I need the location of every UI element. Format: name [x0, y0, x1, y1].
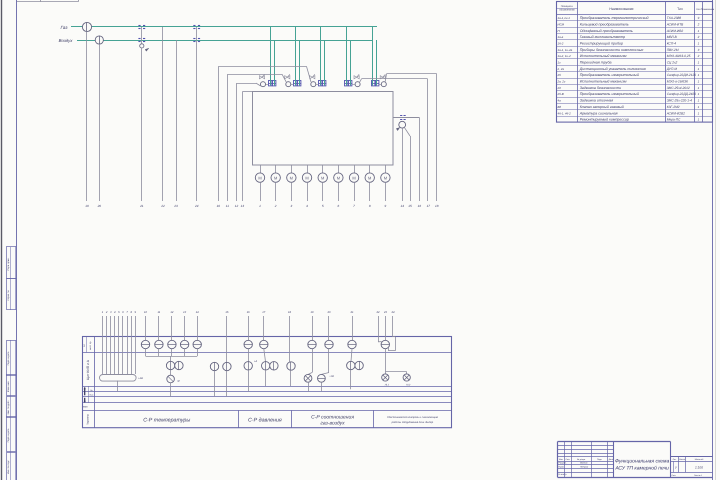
svg-text:Тип: Тип [677, 7, 683, 11]
svg-text:ТХА-2388: ТХА-2388 [667, 16, 682, 20]
svg-text:1а-2, 1и-2: 1а-2, 1и-2 [558, 54, 572, 58]
svg-text:Инв. № подл: Инв. № подл [7, 460, 10, 474]
svg-text:Ремонтируемый компрессор: Ремонтируемый компрессор [580, 118, 629, 122]
svg-text:16: 16 [247, 311, 250, 314]
svg-text:14: 14 [196, 311, 199, 314]
svg-text:мест. пр.: мест. пр. [89, 341, 92, 350]
svg-text:7: 7 [353, 204, 355, 208]
svg-text:18: 18 [435, 204, 439, 208]
svg-text:С-Р давления: С-Р давления [248, 418, 282, 424]
svg-text:КСП-4: КСП-4 [667, 42, 677, 46]
svg-text:18: 18 [288, 311, 291, 314]
svg-text:1а-1,1и-1: 1а-1,1и-1 [558, 16, 571, 20]
svg-text:Клапан запорный газовый: Клапан запорный газовый [580, 105, 624, 109]
svg-text:19: 19 [85, 204, 89, 208]
svg-text:+1В: +1В [329, 375, 334, 378]
svg-text:Подп.: Подп. [597, 458, 603, 461]
svg-text:АСИМ-ИВ2: АСИМ-ИВ2 [666, 29, 684, 33]
svg-text:1а-1, 1и-2а: 1а-1, 1и-2а [558, 48, 573, 52]
svg-text:9: 9 [385, 204, 387, 208]
svg-text:Изм: Изм [559, 458, 563, 461]
svg-text:Преобразователь измерительный: Преобразователь измерительный [580, 92, 639, 96]
svg-text:Однофазный преобразователь: Однофазный преобразователь [580, 29, 633, 33]
svg-text:Преобразователь измерительный: Преобразователь измерительный [580, 73, 639, 77]
svg-text:16: 16 [418, 204, 422, 208]
svg-text:МЭО-а-16/63К: МЭО-а-16/63К [667, 80, 689, 84]
svg-text:17: 17 [262, 311, 265, 314]
svg-text:Регистрирующий прибор: Регистрирующий прибор [580, 42, 623, 46]
svg-text:13: 13 [241, 204, 245, 208]
svg-text:22: 22 [160, 204, 165, 208]
svg-text:19: 19 [311, 311, 314, 314]
svg-text:Взам. инв.: Взам. инв. [7, 381, 10, 392]
svg-text:М: М [305, 175, 308, 180]
svg-text:17: 17 [427, 204, 431, 208]
svg-text:Масштаб: Масштаб [695, 458, 704, 461]
svg-text:8: 8 [369, 204, 371, 208]
svg-text:1а-а: 1а-а [558, 35, 564, 39]
svg-text:Лит.: Лит. [673, 458, 677, 461]
svg-text:Мера-ПС: Мера-ПС [667, 118, 681, 122]
svg-text:2: 2 [697, 54, 700, 58]
svg-text:Функциональная схема: Функциональная схема [615, 459, 670, 465]
svg-text:АСУ ТП камерной печи: АСУ ТП камерной печи [614, 466, 669, 472]
svg-text:Масса: Масса [679, 458, 686, 461]
svg-text:1б-2: 1б-2 [558, 42, 564, 46]
svg-text:2д: 2д [557, 86, 562, 90]
svg-text:1: 1 [259, 204, 261, 208]
svg-text:Обеспечивается контроль и сигн: Обеспечивается контроль и сигнализация [387, 416, 439, 419]
svg-text:МЭО-40/63-0,25: МЭО-40/63-0,25 [667, 54, 691, 58]
svg-text:2б: 2б [557, 73, 562, 77]
svg-text:Вд: Вд [558, 105, 562, 109]
svg-text:23: 23 [383, 311, 387, 314]
svg-text:М: М [337, 175, 340, 180]
svg-text:HL1: HL1 [385, 383, 390, 386]
svg-text:13: 13 [183, 311, 186, 314]
svg-text:Параметр: Параметр [87, 413, 90, 425]
svg-text:HL2: HL2 [406, 383, 411, 386]
svg-text:Перв. прим.: Перв. прим. [7, 257, 10, 270]
svg-text:МВЛ-В: МВЛ-В [667, 35, 678, 39]
svg-text:Справ. №: Справ. № [7, 290, 10, 301]
svg-text:Задвижка безопасности: Задвижка безопасности [580, 86, 621, 90]
svg-text:КЗГ-2М2: КЗГ-2М2 [667, 105, 680, 109]
svg-text:М: М [321, 175, 324, 180]
svg-text:2, 2а: 2, 2а [557, 67, 565, 71]
svg-text:3: 3 [290, 204, 292, 208]
svg-text:Пров.: Пров. [559, 465, 565, 468]
svg-text:Дистанционный указатель положе: Дистанционный указатель положения [579, 67, 646, 71]
svg-text:Кольцевой преобразователь: Кольцевой преобразователь [580, 22, 629, 26]
svg-text:С-Р температуры: С-Р температуры [143, 418, 190, 424]
svg-text:10: 10 [217, 204, 221, 208]
svg-text:24: 24 [194, 204, 199, 208]
svg-text:4: 4 [306, 204, 308, 208]
svg-text:Арматура сигнальная: Арматура сигнальная [579, 111, 618, 115]
svg-text:Н.контр.: Н.контр. [559, 473, 568, 476]
svg-text:2б-В: 2б-В [557, 92, 564, 96]
svg-text:10: 10 [144, 311, 147, 314]
svg-text:Газ: Газ [61, 25, 69, 30]
svg-text:2: 2 [274, 204, 277, 208]
svg-text:ЗМС-25х4-2012: ЗМС-25х4-2012 [667, 86, 690, 90]
svg-text:12: 12 [235, 204, 239, 208]
svg-text:М: М [274, 175, 277, 180]
svg-text:АСИМ-И2В2: АСИМ-И2В2 [666, 111, 685, 115]
svg-text:2: 2 [697, 22, 700, 26]
svg-text:М: М [384, 175, 387, 180]
svg-text:ДУП-М: ДУП-М [666, 67, 678, 71]
svg-text:14: 14 [400, 204, 404, 208]
svg-text:20: 20 [327, 311, 331, 314]
svg-text:11: 11 [226, 204, 229, 208]
svg-text:Лист: Лист [672, 474, 676, 477]
svg-text:обозначение: обозначение [559, 9, 575, 12]
svg-text:№ докум.: № докум. [577, 458, 586, 461]
svg-text:6: 6 [338, 204, 340, 208]
svg-text:Сапфир-22ДД-2420: Сапфир-22ДД-2420 [667, 92, 697, 96]
svg-text:газ-воздух: газ-воздух [320, 421, 345, 427]
svg-text:Переходная труба: Переходная труба [580, 61, 612, 65]
svg-text:5: 5 [322, 204, 324, 208]
svg-text:работы оборудования печи. Выбо: работы оборудования печи. Выбор [391, 421, 434, 424]
svg-text:Приборы безопасности комплексн: Приборы безопасности комплексные [580, 48, 644, 52]
svg-text:+1В: +1В [138, 377, 143, 380]
svg-text:Газовый милливольтметр: Газовый милливольтметр [580, 35, 625, 39]
svg-text:12: 12 [170, 311, 173, 314]
svg-text:СЦ 2х2: СЦ 2х2 [667, 61, 678, 65]
svg-text:М: М [258, 175, 261, 180]
svg-text:Задвижка отсечная: Задвижка отсечная [580, 99, 614, 103]
svg-text:ПВУ-2М: ПВУ-2М [667, 48, 679, 52]
svg-text:Разраб.: Разраб. [559, 462, 567, 465]
svg-text:ИСМ: ИСМ [558, 22, 565, 26]
svg-text:2: 2 [697, 35, 700, 39]
svg-text:Инв. № дубл: Инв. № дубл [7, 400, 10, 414]
svg-text:Исполнительный механизм: Исполнительный механизм [580, 54, 627, 58]
svg-text:Листов 1: Листов 1 [694, 474, 703, 477]
svg-text:22: 22 [376, 311, 380, 314]
svg-text:24: 24 [391, 311, 395, 314]
svg-text:М: М [352, 175, 355, 180]
svg-text:Подп. и дата: Подп. и дата [7, 428, 10, 442]
svg-text:11: 11 [158, 311, 161, 314]
svg-text:Сапфир-22ДИ-2120: Сапфир-22ДИ-2120 [667, 73, 697, 77]
svg-text:Наименование: Наименование [609, 7, 633, 11]
svg-text:Воздух: Воздух [59, 38, 74, 43]
svg-text:4б-1, 4б-2: 4б-1, 4б-2 [558, 111, 572, 115]
svg-text:23: 23 [173, 204, 178, 208]
svg-text:ЭВМ: ЭВМ [83, 406, 88, 409]
svg-text:АСИМ-ИТВ: АСИМ-ИТВ [666, 22, 684, 26]
svg-text:Вых: Вых [90, 394, 94, 397]
svg-text:Иванов: Иванов [580, 462, 588, 465]
svg-text:15: 15 [408, 204, 412, 208]
svg-text:Исполнительный механизм: Исполнительный механизм [580, 80, 627, 84]
svg-text:2в, 2г: 2в, 2г [557, 80, 566, 84]
svg-text:Примечание: Примечание [701, 8, 715, 11]
svg-text:Вх: Вх [90, 389, 92, 392]
svg-text:ЗМС-25х-220-1-4: ЗМС-25х-220-1-4 [667, 99, 692, 103]
svg-text:Щит КИП и А: Щит КИП и А [86, 359, 90, 380]
svg-text:4а: 4а [558, 99, 562, 103]
svg-text:15: 15 [225, 311, 228, 314]
svg-text:Преобразователь термоэлектриче: Преобразователь термоэлектрический [580, 16, 649, 20]
svg-text:Лист: Лист [566, 458, 570, 461]
svg-text:М: М [368, 175, 371, 180]
svg-text:20: 20 [97, 204, 102, 208]
svg-text:Подп. и дата: Подп. и дата [7, 351, 10, 365]
svg-text:М: М [290, 175, 293, 180]
svg-text:Петров: Петров [580, 465, 589, 468]
svg-text:21: 21 [350, 311, 354, 314]
svg-text:1:100: 1:100 [695, 466, 703, 470]
svg-text:21: 21 [139, 204, 144, 208]
